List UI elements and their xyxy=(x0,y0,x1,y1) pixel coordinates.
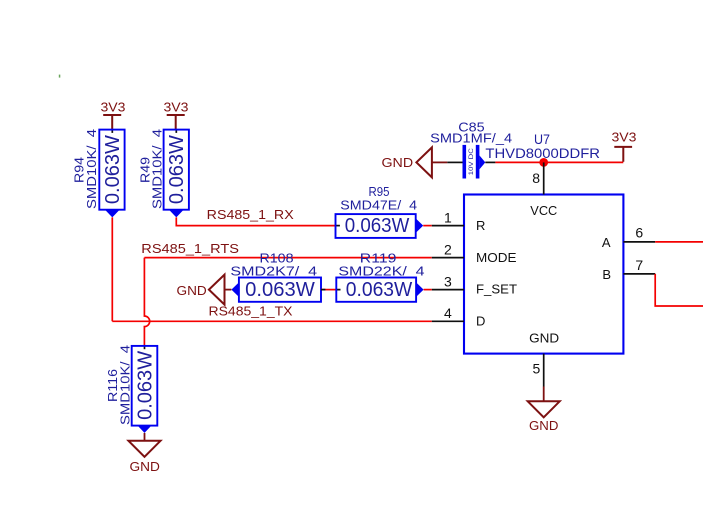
svg-text:0.063W: 0.063W xyxy=(245,279,315,301)
U7 pin 1 stub xyxy=(432,225,464,227)
svg-text:1: 1 xyxy=(444,210,452,226)
resistor R108 xyxy=(231,282,239,297)
GND symbol (below U7 pin 5) xyxy=(543,387,545,402)
wire R119 to U7 pin3 xyxy=(424,289,432,291)
svg-text:6: 6 xyxy=(635,225,643,241)
svg-text:10V DC: 10V DC xyxy=(468,148,475,175)
pin marker R95 pin2 xyxy=(416,218,424,233)
svg-text:SMD10K/ 4: SMD10K/ 4 xyxy=(117,345,132,425)
svg-text:THVD8000DDFR: THVD8000DDFR xyxy=(485,145,600,161)
svg-text:D: D xyxy=(476,313,485,328)
svg-text:5: 5 xyxy=(533,361,541,377)
svg-text:SMD10K/ 4: SMD10K/ 4 xyxy=(84,129,99,209)
svg-text:8: 8 xyxy=(532,170,540,186)
U7 pin 2 stub xyxy=(432,257,464,259)
power symbol 3V3 (right) xyxy=(614,147,632,162)
svg-text:GND: GND xyxy=(529,418,558,433)
GND symbol (below R116) xyxy=(144,433,146,441)
pin marker R94 pin2 xyxy=(105,210,120,218)
resistor R119 xyxy=(336,278,416,302)
svg-text:RS485_1_RTS: RS485_1_RTS xyxy=(141,241,239,256)
svg-text:SMD47E/ 4: SMD47E/ 4 xyxy=(340,198,417,213)
svg-text:2: 2 xyxy=(444,242,452,258)
resistor R116 xyxy=(144,346,146,349)
svg-text:RS485_1_RX: RS485_1_RX xyxy=(207,207,294,222)
U7 pin 5 stub xyxy=(543,354,545,387)
wire R108 to R119 xyxy=(321,289,336,291)
svg-text:SMD2K7/ 4: SMD2K7/ 4 xyxy=(230,263,317,278)
GND symbol (at C85) xyxy=(416,147,432,177)
svg-text:MODE: MODE xyxy=(476,250,517,265)
IC U7 body xyxy=(464,195,623,354)
U7 pin 7 stub xyxy=(623,273,655,275)
svg-text:GND: GND xyxy=(382,155,414,170)
svg-text:3V3: 3V3 xyxy=(164,99,189,114)
U7 pin 8 stub xyxy=(543,162,545,194)
svg-text:SMD1MF/_4: SMD1MF/_4 xyxy=(430,131,512,146)
svg-text:3V3: 3V3 xyxy=(101,99,126,114)
U7 pin 3 stub xyxy=(432,289,464,291)
svg-text:0.063W: 0.063W xyxy=(345,215,410,237)
wire net A (pin 6) xyxy=(655,241,703,243)
pin marker R119 pin2 xyxy=(416,282,424,297)
svg-text:0.063W: 0.063W xyxy=(166,135,188,204)
svg-text:0.063W: 0.063W xyxy=(102,135,124,204)
wire net B (pin 7) xyxy=(655,274,703,306)
resistor R49 xyxy=(175,130,177,133)
svg-text:0.063W: 0.063W xyxy=(134,351,156,420)
svg-text:SMD10K/ 4: SMD10K/ 4 xyxy=(150,129,165,209)
resistor R95 xyxy=(336,225,340,227)
wire 3V3 net to junction xyxy=(495,161,623,163)
pin marker R116 pin2 xyxy=(137,425,151,433)
wire net RS485_1_TX horizontal xyxy=(112,320,432,322)
svg-text:RS485_1_TX: RS485_1_TX xyxy=(209,304,293,319)
grid origin marker xyxy=(59,75,61,78)
power symbol 3V3 (above R49) xyxy=(167,115,185,130)
resistor R94 xyxy=(111,130,113,133)
GND symbol (at R108) xyxy=(209,275,225,305)
U7 pin 6 stub xyxy=(623,241,655,243)
svg-text:F_SET: F_SET xyxy=(476,282,517,297)
junction xyxy=(539,158,548,167)
wire net RS485_1_RX from R49 xyxy=(176,217,335,225)
U7 pin 4 stub xyxy=(432,320,464,322)
svg-text:GND: GND xyxy=(177,283,207,298)
svg-text:0.063W: 0.063W xyxy=(346,279,413,301)
svg-text:R: R xyxy=(476,218,485,233)
svg-text:GND: GND xyxy=(130,459,160,474)
svg-text:SMD22K/ 4: SMD22K/ 4 xyxy=(338,263,424,278)
capacitor C85 xyxy=(447,161,462,163)
svg-text:4: 4 xyxy=(444,305,452,321)
svg-text:A: A xyxy=(602,235,611,250)
pin marker R49 pin2 xyxy=(169,210,184,218)
svg-text:B: B xyxy=(602,267,611,282)
svg-text:GND: GND xyxy=(529,331,559,346)
svg-text:7: 7 xyxy=(635,257,643,273)
svg-text:3: 3 xyxy=(444,273,452,289)
wire net RS485_1_TX vertical from R94 xyxy=(111,217,113,321)
wire R95 to U7 pin1 xyxy=(423,225,432,227)
svg-text:VCC: VCC xyxy=(530,203,557,218)
wire net RS485_1_RTS vertical with hop over TX xyxy=(144,258,149,346)
wire net RS485_1_RTS horizontal xyxy=(144,257,431,259)
svg-text:3V3: 3V3 xyxy=(612,130,637,145)
power symbol 3V3 (above R94) xyxy=(103,115,121,130)
